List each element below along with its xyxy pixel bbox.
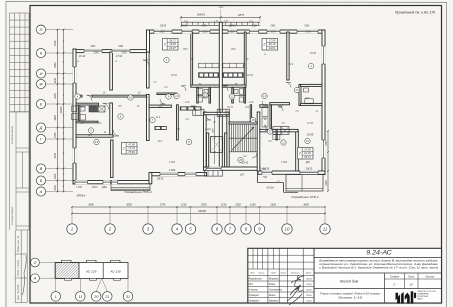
right small dim chain xyxy=(327,131,329,191)
axis 10 xyxy=(282,224,292,234)
stairwell inner wall xyxy=(229,122,257,124)
title block doc number xyxy=(313,248,315,303)
partition right room xyxy=(296,131,299,171)
kitchen upper cabinets center right xyxy=(223,63,244,68)
wc box right section xyxy=(299,84,301,105)
balcony left wing railing PGF-4 xyxy=(110,184,112,190)
top wall left wing (axis K) xyxy=(73,50,150,53)
entrance opening stair xyxy=(206,167,221,171)
left dim chains xyxy=(57,30,59,192)
kitchen counter center right xyxy=(223,73,244,78)
stage table xyxy=(404,273,406,289)
top dim line xyxy=(181,16,260,18)
top balcony railing xyxy=(181,21,260,23)
axis 8 xyxy=(241,224,251,234)
kitchen fixtures right section xyxy=(273,127,281,135)
room number circles xyxy=(128,95,133,100)
stair left wall xyxy=(227,112,229,167)
left outer wall (axis 1) xyxy=(73,49,76,184)
title block object name xyxy=(384,273,386,303)
axis А xyxy=(36,187,45,196)
floor plan xyxy=(73,7,326,199)
key plan leader circles xyxy=(55,278,57,291)
axis Д xyxy=(36,123,45,132)
axis 9 xyxy=(254,224,264,234)
corridor wall axis E center xyxy=(149,105,171,107)
logo xyxy=(396,291,417,303)
right outer wall (axis 11) xyxy=(322,30,325,175)
axis 5 xyxy=(185,224,195,234)
axis 6 xyxy=(212,224,222,234)
axis Г xyxy=(36,134,45,143)
corridor wall axis E right xyxy=(260,105,268,107)
central party wall axis 6/7 xyxy=(219,22,222,167)
left margin stamp table xyxy=(10,12,30,14)
axis 1 xyxy=(67,224,77,234)
bottom wall stair section (axis V) xyxy=(204,167,261,170)
axis 4 xyxy=(172,224,182,234)
axis И xyxy=(36,69,45,78)
key plan axis circles xyxy=(31,258,40,267)
partition axis 10 top xyxy=(287,32,289,80)
bottom dim chain xyxy=(72,206,325,208)
bottom axis circles xyxy=(71,207,73,224)
stair right wall axis 9 xyxy=(257,112,260,171)
axis К xyxy=(36,48,45,57)
key plan stair bumps xyxy=(62,260,72,262)
corridor walls left wing xyxy=(76,95,82,97)
bathroom walls center right xyxy=(232,88,234,103)
elevator shaft xyxy=(207,133,209,167)
entrance terrace right xyxy=(257,171,259,183)
party wall axis 2 xyxy=(110,52,113,90)
title block xyxy=(248,248,442,303)
windows left outer wall xyxy=(73,67,77,83)
sheet outer edge xyxy=(5,1,7,307)
sheet name cell xyxy=(314,288,441,290)
windows axis K wall xyxy=(84,49,102,53)
balcony right railing OGF-1 xyxy=(286,175,323,192)
bathroom walls center left xyxy=(197,88,199,103)
windows right outer wall xyxy=(322,46,326,64)
kitchen counter center left xyxy=(199,73,220,78)
windows bottom walls xyxy=(75,180,88,184)
entrance porch xyxy=(205,171,223,177)
windows axis L wall xyxy=(154,30,172,34)
living room wall left wing xyxy=(111,140,113,178)
closet partition right xyxy=(270,105,272,130)
top main wall (axis L) xyxy=(147,30,326,33)
bath fixtures left wing xyxy=(72,106,78,112)
party wall axis 3 xyxy=(147,52,150,88)
step wall between axis K and L xyxy=(147,30,150,52)
bottom wall mid section xyxy=(151,173,207,176)
storage partition center left xyxy=(157,93,177,95)
partition axis 8 xyxy=(244,32,246,85)
axis В xyxy=(36,164,45,173)
title block signature table xyxy=(252,248,254,269)
signatures squiggles xyxy=(287,276,304,301)
entry thresholds to stair xyxy=(193,109,204,115)
stair top landing wall xyxy=(204,112,230,114)
axis 7 xyxy=(225,224,235,234)
partition axis Zh center xyxy=(191,85,220,87)
lobby dim line xyxy=(214,116,216,164)
elevator left wall xyxy=(204,112,207,167)
staircase xyxy=(229,137,257,139)
axis 11 xyxy=(320,224,330,234)
title block description xyxy=(314,272,441,274)
bath partition left wing xyxy=(78,105,79,121)
partition axis 5 xyxy=(191,32,193,85)
axis Б xyxy=(36,176,45,185)
axis 3 xyxy=(143,224,153,234)
partition axis D right xyxy=(260,129,298,131)
axis 2 xyxy=(105,224,115,234)
kitchen fixtures left wing xyxy=(89,106,98,112)
axis Л xyxy=(36,25,45,34)
bottom wall right section xyxy=(258,171,325,174)
closet band lower left xyxy=(155,126,167,130)
built-in closets dark band xyxy=(180,106,202,110)
partition axis G left wing xyxy=(76,135,113,137)
axis Е xyxy=(36,99,45,108)
partition axis 4 xyxy=(177,105,179,140)
left axis leaders and circles xyxy=(46,29,74,31)
bottom wall left wing (axis B) xyxy=(73,181,151,184)
key plan building outline xyxy=(55,263,128,279)
door arcs xyxy=(87,95,93,101)
room table apt top-left xyxy=(163,39,179,51)
misc closet right xyxy=(262,108,268,117)
axis Ж xyxy=(36,79,45,88)
storage partition center right xyxy=(250,105,251,122)
kitchen upper cabinets center left xyxy=(199,63,220,68)
